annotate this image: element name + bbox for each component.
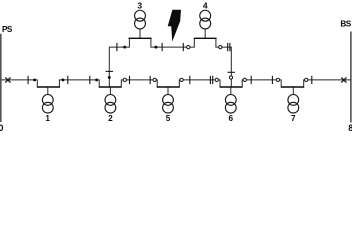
wire stub trafo T3 <box>139 29 141 38</box>
bus BS vertical line <box>350 32 352 123</box>
svg-text:8: 8 <box>348 123 352 131</box>
svg-text:2: 2 <box>108 114 113 123</box>
switch tick h <box>250 76 252 84</box>
switch tick upper m <box>182 43 184 51</box>
switch tick i <box>271 76 273 84</box>
bus bar node 4 <box>194 37 217 39</box>
wire stub trafo T4 <box>204 29 206 38</box>
junction dot node upper d <box>123 46 126 49</box>
wire main feeder segment bus2 to bus5 <box>121 80 157 87</box>
wire upper segment bus3 to bus4 <box>151 38 194 47</box>
switch tick b <box>67 76 69 84</box>
junction dot node on main line b <box>61 78 64 81</box>
bus bar node 3 <box>129 37 152 39</box>
open node circle n1 <box>123 78 126 81</box>
wire main feeder segment PS to bus1 <box>1 80 37 87</box>
transformer T1 circles <box>42 95 53 106</box>
wire main feeder segment bus6 to bus7 <box>242 80 281 87</box>
switch tick upper n2 <box>229 43 231 51</box>
bus bar node 6 <box>220 86 243 88</box>
transformer T4 circles <box>200 10 211 21</box>
svg-text:6: 6 <box>229 114 234 123</box>
open node circle n7 <box>305 78 308 81</box>
wire stub trafo T1 <box>47 87 49 95</box>
wire upper segment bus4 to riser bus6 <box>216 38 231 86</box>
svg-text:7: 7 <box>291 114 296 123</box>
svg-text:5: 5 <box>166 114 171 123</box>
bus PS vertical line <box>0 34 2 122</box>
svg-text:3: 3 <box>137 1 142 11</box>
junction dot riser left <box>108 76 111 79</box>
switch tick c <box>89 76 91 84</box>
open node circle riser right <box>229 76 232 79</box>
transformer T5 circles <box>163 95 174 106</box>
switch tick f <box>189 76 191 84</box>
junction dot node on main line c <box>95 78 98 81</box>
wire riser bus2 to upper line and upper segment to bus3 <box>109 38 129 86</box>
wire main feeder segment bus7 to BS <box>304 80 351 87</box>
junction dot node upper e <box>154 46 157 49</box>
bus bar node 7 <box>281 86 305 88</box>
open node circle upper u1 <box>187 45 190 48</box>
transformer T7 circles <box>288 95 299 106</box>
switch tick j <box>311 76 313 84</box>
switch open X left <box>5 77 10 82</box>
wire main feeder segment bus5 to bus6 <box>179 80 220 87</box>
open node circle n4 <box>215 78 218 81</box>
wire stub trafo T7 <box>292 87 294 95</box>
switch tick g1 <box>209 76 211 84</box>
switch tick riser right horizontal <box>228 71 235 73</box>
switch tick upper k <box>116 43 118 51</box>
switch tick a <box>27 76 29 84</box>
open node circle n3 <box>180 78 183 81</box>
open node circle upper u2 <box>219 45 222 48</box>
svg-text:BS: BS <box>340 20 351 29</box>
switch open X right <box>341 77 346 82</box>
switch tick e <box>149 76 151 84</box>
wire stub trafo T2 <box>109 87 111 95</box>
switch tick g2 <box>212 76 214 84</box>
wire main feeder segment bus1 to bus2 <box>59 80 99 87</box>
open node circle n6 <box>276 78 279 81</box>
wire stub trafo T5 <box>167 87 169 95</box>
open node circle n2 <box>153 78 156 81</box>
switch tick upper n1 <box>227 43 229 51</box>
svg-text:4: 4 <box>203 1 208 11</box>
switch tick upper l <box>161 43 163 51</box>
open node circle n5 <box>243 78 246 81</box>
switch tick riser left horizontal <box>106 70 113 72</box>
bus bar node 1 <box>37 86 60 88</box>
transformer T3 circles <box>135 10 146 21</box>
bus bar node 2 <box>99 86 122 88</box>
svg-text:0: 0 <box>0 123 3 131</box>
junction dot node on main line a <box>33 78 36 81</box>
fault lightning bolt <box>168 10 181 42</box>
svg-text:PS: PS <box>2 25 13 34</box>
wire stub trafo T6 <box>230 87 232 95</box>
svg-text:1: 1 <box>45 114 50 123</box>
transformer T6 circles <box>225 95 236 106</box>
bus bar node 5 <box>157 86 180 88</box>
transformer T2 circles <box>105 95 116 106</box>
switch tick d <box>129 76 131 84</box>
